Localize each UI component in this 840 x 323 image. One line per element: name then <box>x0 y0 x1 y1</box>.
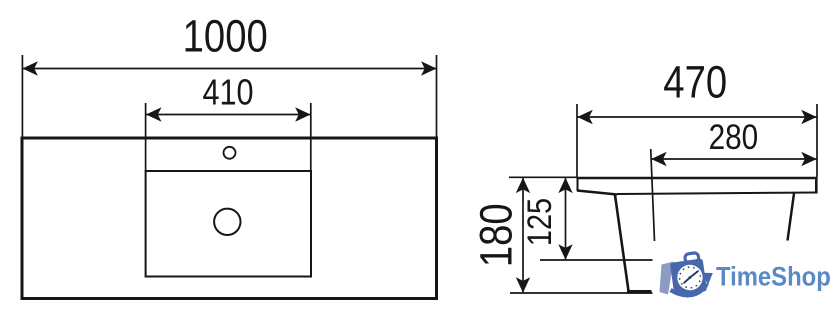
logo clock hands <box>689 272 697 278</box>
arrowhead top of dim 180 <box>516 178 530 194</box>
dimension line 125 (vertical) <box>565 178 567 260</box>
svg-text:1000: 1000 <box>183 11 268 62</box>
dimension line 470 <box>578 116 817 118</box>
dimension line 410 <box>146 114 311 116</box>
slab bottom sloped left part <box>577 191 617 195</box>
arrowhead right of dim 470 <box>801 110 817 124</box>
middle extension line of dim 125 <box>540 259 653 261</box>
arrowhead bottom of dim 180 <box>516 277 530 293</box>
slab top line <box>577 177 817 180</box>
arrowhead left of dim 280 <box>651 152 667 166</box>
logo main bag body <box>669 252 707 296</box>
arrowhead left of dim 410 <box>146 107 162 121</box>
inner rectangle: basin bowl <box>146 171 311 277</box>
arrowhead bottom of dim 125 <box>558 244 572 260</box>
logo clock face <box>676 263 705 292</box>
logo clock tick marks <box>677 265 702 290</box>
extension line right of dim 1000 <box>436 55 438 137</box>
small circle: faucet hole <box>224 147 236 159</box>
extension line of dim 280 / leg right edge diagonal <box>651 149 655 241</box>
extension line left of dim 410 <box>145 103 147 171</box>
svg-text:470: 470 <box>663 57 727 108</box>
dimension line 280 <box>651 158 816 160</box>
outer rectangle: basin countertop outline <box>22 138 437 299</box>
logo swoosh arrow <box>671 284 707 296</box>
dimension line 180 (vertical) <box>522 178 524 293</box>
front leg left edge <box>615 195 629 291</box>
svg-text:180: 180 <box>471 203 522 267</box>
svg-text:125: 125 <box>520 198 559 246</box>
arrowhead right of dim 410 <box>295 107 311 121</box>
large circle: drain hole <box>214 209 240 235</box>
arrowhead right of dim 1000 <box>421 61 437 75</box>
top extension line of dims 180/125 <box>509 176 577 178</box>
arrowhead top of dim 125 <box>558 178 572 194</box>
slab bottom line <box>617 193 816 195</box>
arrowhead left of dim 1000 <box>22 61 38 75</box>
slab right edge <box>815 177 818 194</box>
extension line left of dim 1000 <box>21 55 23 137</box>
slab left edge <box>577 177 579 191</box>
dimension line 1000 <box>23 68 436 70</box>
extension line right of dims 470/280 <box>816 104 818 177</box>
floor extension line of dim 180 <box>510 292 653 294</box>
svg-text:280: 280 <box>709 118 759 157</box>
arrowhead left of dim 470 <box>577 110 593 124</box>
extension line right of dim 410 <box>310 103 312 171</box>
front leg bottom foot <box>627 290 652 294</box>
arrowhead right of dim 280 <box>801 152 817 166</box>
logo bag handle <box>685 252 700 263</box>
rear support leg <box>788 194 795 241</box>
svg-text:410: 410 <box>202 73 253 113</box>
extension line left of dim 470 <box>576 104 578 177</box>
svg-text:TimeShop: TimeShop <box>716 262 831 291</box>
logo swoosh arrowhead <box>702 273 713 285</box>
logo back bag silhouette (light blue) <box>660 262 674 295</box>
